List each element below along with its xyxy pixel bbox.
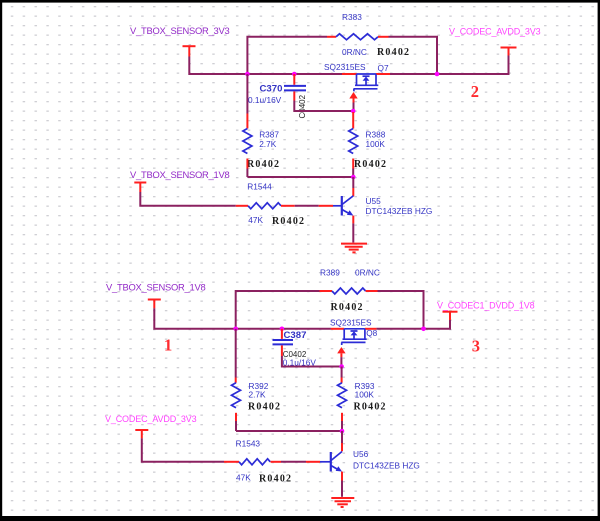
svg-text:2.7K: 2.7K: [259, 139, 277, 149]
svg-text:R383: R383: [342, 12, 362, 22]
junction rail at R383 left: [245, 72, 250, 77]
resistor R383: [336, 34, 378, 40]
svg-text:R0402: R0402: [248, 402, 281, 413]
svg-text:2.7K: 2.7K: [249, 390, 267, 400]
svg-text:C0402: C0402: [298, 94, 307, 118]
junction bottom rail at R392: [233, 327, 238, 332]
svg-text:V_TBOX_SENSOR_1V8: V_TBOX_SENSOR_1V8: [106, 282, 205, 293]
wire gate to junction (bottom): [340, 357, 342, 366]
wire base left bottom: [142, 438, 224, 461]
svg-text:V_CODEC_AVDD_3V3: V_CODEC_AVDD_3V3: [105, 414, 197, 424]
svg-text:2: 2: [471, 82, 479, 101]
wire collector rail bottom circuit: [236, 430, 342, 432]
power symbol V_CODEC_AVDD_3V3 (bottom): [135, 430, 148, 438]
mosfet Q8 SQ2315ES: [331, 328, 377, 330]
svg-text:R0402: R0402: [272, 216, 305, 227]
svg-text:100K: 100K: [355, 390, 375, 400]
svg-text:100K: 100K: [366, 139, 386, 149]
resistor R387: [243, 129, 252, 154]
svg-text:3: 3: [472, 337, 480, 356]
transistor U56 DTC143ZEB: [341, 431, 343, 443]
resistor R393: [338, 383, 347, 408]
resistor R1544: [248, 203, 281, 209]
resistor R392: [232, 383, 241, 408]
svg-text:0.1u/16V: 0.1u/16V: [248, 95, 282, 105]
svg-text:Q8: Q8: [366, 328, 377, 338]
svg-text:R0402: R0402: [354, 159, 387, 170]
svg-text:V_TBOX_SENSOR_1V8: V_TBOX_SENSOR_1V8: [130, 169, 229, 180]
junction rail at R383 right: [435, 72, 440, 77]
wire R383 left vertical: [247, 37, 327, 74]
svg-text:C387: C387: [284, 330, 307, 341]
svg-text:R0402: R0402: [354, 402, 387, 413]
svg-text:47K: 47K: [236, 473, 251, 483]
wire R383 right vertical: [389, 37, 438, 74]
svg-text:SQ2315ES: SQ2315ES: [330, 318, 372, 328]
ground top circuit: [341, 244, 367, 253]
wire R393 branch upper: [341, 367, 343, 378]
wire gate to junction: [353, 103, 355, 112]
junction bottom rail at R389 right: [421, 327, 426, 332]
resistor R1543: [239, 459, 270, 465]
svg-text:R1543: R1543: [236, 438, 261, 448]
svg-text:SQ2315ES: SQ2315ES: [324, 62, 366, 72]
wire R389 left stub: [320, 290, 333, 292]
svg-text:V_CODEC_AVDD_3V3: V_CODEC_AVDD_3V3: [449, 27, 541, 37]
svg-text:R0402: R0402: [247, 159, 280, 170]
svg-text:V_CODEC1_DVDD_1V8: V_CODEC1_DVDD_1V8: [437, 300, 535, 310]
ground bottom circuit: [331, 498, 354, 507]
svg-text:DTC143ZEB HZG: DTC143ZEB HZG: [353, 461, 420, 471]
junction bottom rail at C387: [280, 327, 285, 332]
capacitor C387: [281, 329, 283, 339]
gate pin arrow Q8: [337, 347, 345, 353]
wire R387 branch upper: [246, 74, 248, 114]
border frame: [0, 0, 600, 3]
power symbol V_TBOX_SENSOR_1V8 (bottom): [148, 300, 161, 309]
junction rail at C370: [292, 72, 297, 77]
svg-text:U55: U55: [366, 196, 382, 206]
svg-text:1: 1: [164, 336, 172, 355]
svg-text:0R/NC: 0R/NC: [355, 268, 380, 278]
junction gate/C387: [339, 364, 344, 369]
junction collector bottom: [340, 429, 345, 434]
wire power stem to rail: [189, 57, 342, 75]
svg-text:DTC143ZEB HZG: DTC143ZEB HZG: [366, 206, 433, 216]
wire R389 right stub: [366, 290, 378, 292]
svg-text:R0402: R0402: [377, 47, 410, 58]
capacitor C370: [293, 74, 295, 85]
wire power stem to bottom rail: [154, 308, 331, 329]
wire rail right segment: [390, 55, 509, 74]
power symbol V_TBOX_SENSOR_3V3: [183, 46, 196, 56]
wire R392 branch upper: [235, 329, 237, 378]
power symbol V_TBOX_SENSOR_1V8: [134, 183, 146, 193]
svg-text:R388: R388: [366, 130, 386, 140]
junction gate/C370: [351, 109, 356, 114]
junction collector: [351, 175, 356, 180]
wire bottom rail right segment: [376, 320, 450, 329]
svg-text:R0402: R0402: [259, 474, 292, 485]
svg-text:R0402: R0402: [331, 302, 364, 313]
wire R389 right vertical: [378, 291, 424, 329]
mosfet Q7 SQ2315ES: [342, 73, 390, 75]
svg-text:U56: U56: [353, 449, 369, 459]
wire R389 left vertical: [236, 291, 320, 329]
svg-text:0R/NC: 0R/NC: [342, 47, 367, 57]
wire C387 bottom to gate junction: [282, 356, 342, 367]
svg-text:C370: C370: [260, 83, 283, 94]
wire C370 bottom to gate junction: [294, 101, 353, 112]
resistor R389: [332, 288, 366, 294]
resistor R388: [349, 129, 358, 154]
svg-text:R387: R387: [259, 130, 279, 140]
power symbol V_CODEC1_DVDD_1V8: [443, 312, 458, 320]
svg-text:R389: R389: [320, 268, 340, 278]
svg-text:Q7: Q7: [378, 63, 389, 73]
wire R383 right stub: [378, 36, 389, 38]
svg-text:V_TBOX_SENSOR_3V3: V_TBOX_SENSOR_3V3: [130, 25, 229, 36]
svg-text:R1544: R1544: [247, 182, 272, 192]
power symbol V_CODEC_AVDD_3V3: [501, 48, 517, 56]
wire base left: [140, 192, 236, 206]
svg-text:47K: 47K: [248, 215, 263, 225]
wire R383 left stub: [327, 36, 336, 38]
wire collector rail top circuit: [247, 176, 353, 178]
wire R388 branch upper: [352, 112, 354, 129]
gate pin arrow Q7: [349, 92, 357, 99]
transistor U55 DTC143ZEB: [352, 177, 354, 188]
